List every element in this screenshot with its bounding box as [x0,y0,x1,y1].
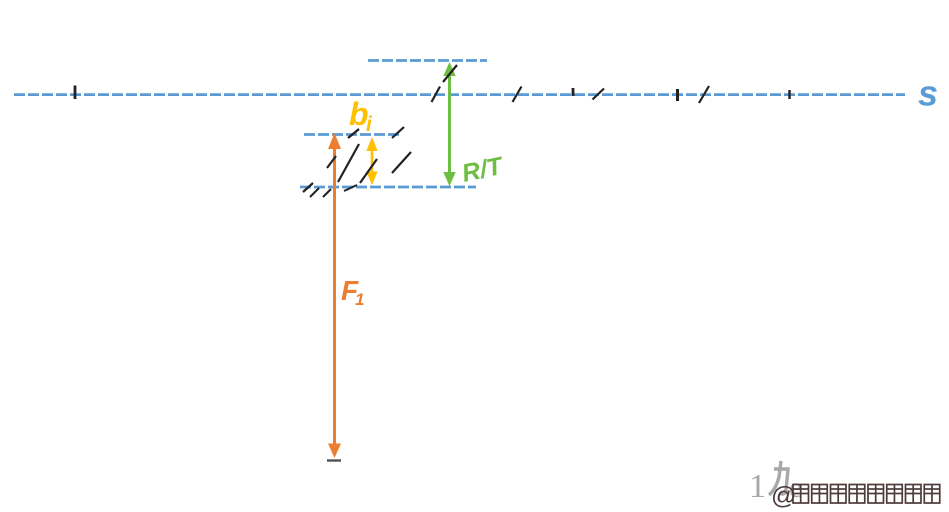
orange force arrow [328,133,341,458]
dark slash on long line x=599 [593,89,605,100]
dark tick on long line x=789 [788,90,790,99]
svg-text:1: 1 [749,468,766,505]
dark slash right end of mid line [392,127,404,138]
dashed line mid (short) [304,133,400,136]
dashed line long (main) [14,93,905,96]
dark dash under lower line 1 [310,188,319,197]
dark slash between lines 2 [360,159,377,183]
dark tick on long line x=677 [676,89,679,101]
faint gray stroke glyph (li) [769,461,788,495]
svg-text:s: s [918,73,938,114]
dark slash between lines 1 [338,144,359,182]
dashed line lower [300,186,476,189]
dark slash left end of lower line [303,183,313,192]
dark smudge on mid line [348,129,359,138]
faint gray text fragment [749,468,802,505]
dark smear under bottom arrow tip [327,459,341,461]
dark slash near orange shaft [327,156,336,168]
watermark [771,482,796,510]
dark tick mark on long line x=75 [74,86,77,100]
yellow double arrow [366,137,377,185]
dark slash on long line x=703 [699,86,709,103]
dark dash under lower line 2 [323,189,331,197]
dark slash between lines 3 [392,152,411,173]
svg-text:R/T: R/T [459,152,507,188]
green double arrow [443,62,455,186]
svg-text:1: 1 [355,290,364,309]
dark slash on long line x=517 [513,87,522,103]
dark slash near green arrow top [443,65,457,82]
dark slash on long line x=435 [432,87,441,103]
dark tick on long line x=573 [572,88,575,96]
svg-text:i: i [366,113,373,136]
dark dash under lower line 3 [344,185,357,191]
watermark hanzi blocks [793,485,940,504]
dashed line top (short) [368,59,487,62]
